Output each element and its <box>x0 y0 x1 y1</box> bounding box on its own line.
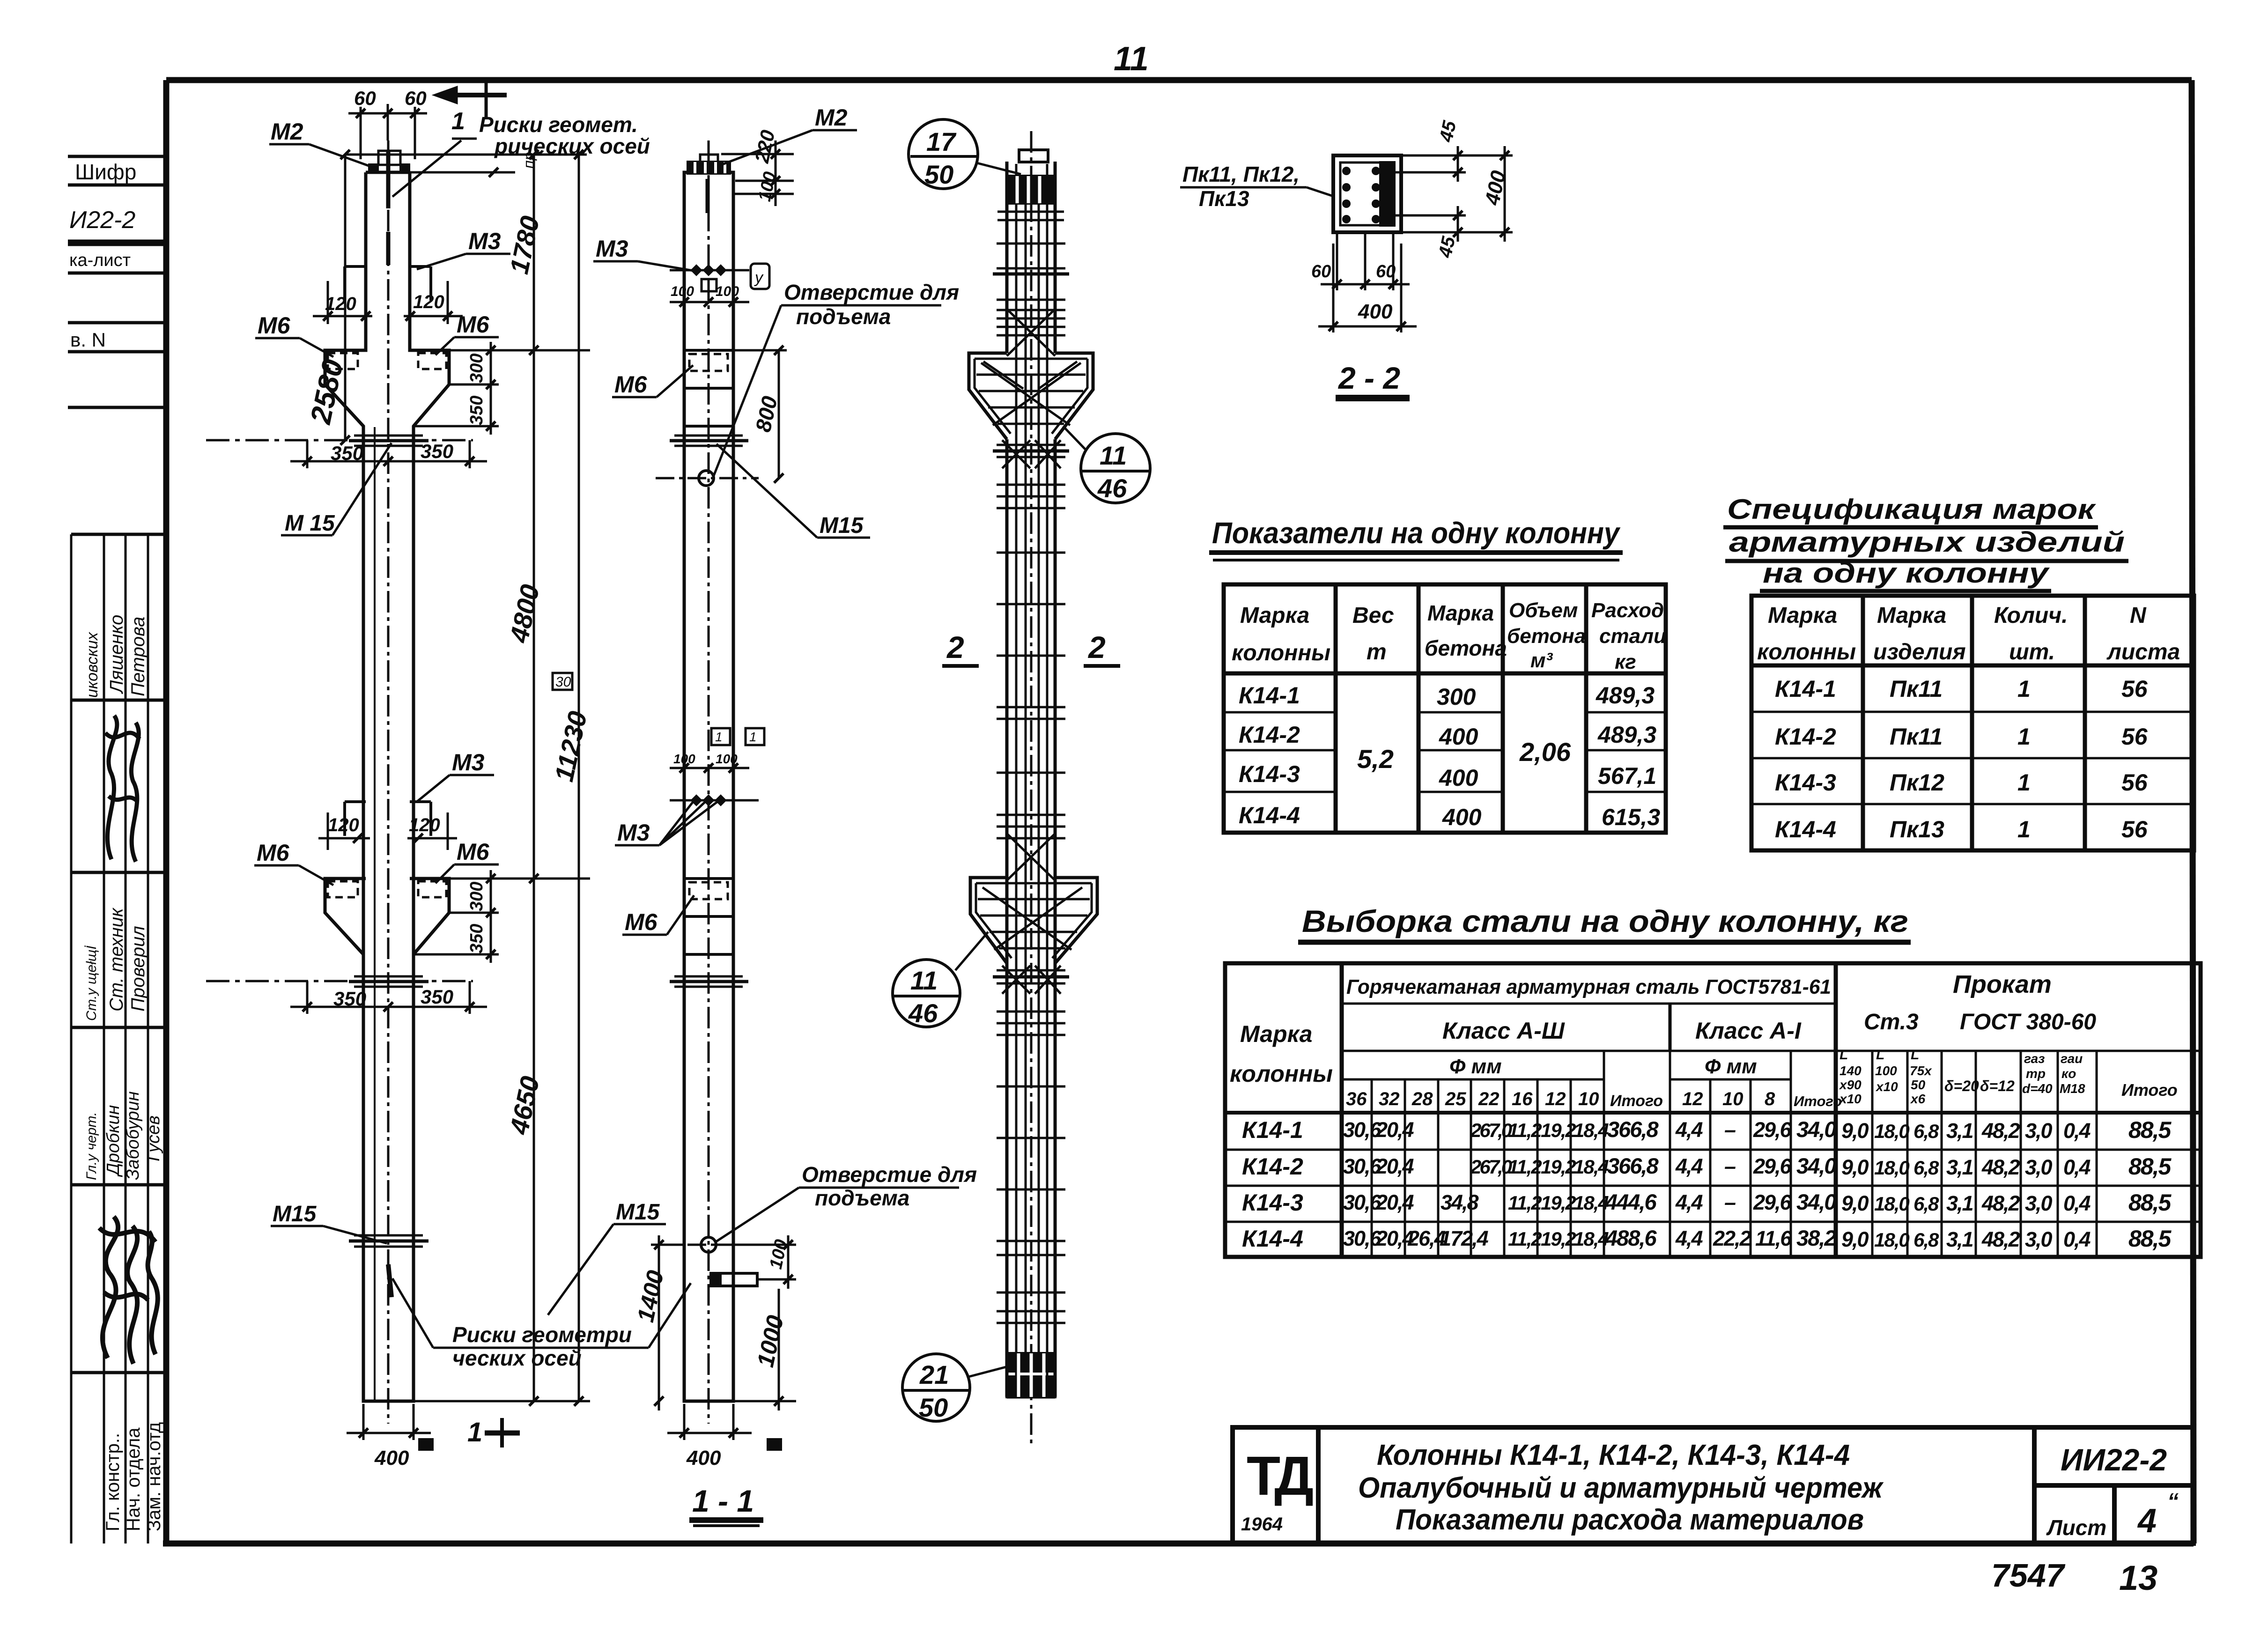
svg-text:0,4: 0,4 <box>2063 1227 2091 1251</box>
svg-text:на одну колонну: на одну колонну <box>1763 557 2050 589</box>
LEFT TITLE STRIP <box>68 156 166 1543</box>
svg-text:1964: 1964 <box>1241 1514 1283 1535</box>
svg-text:М6: М6 <box>258 312 291 339</box>
centerline col3 <box>1030 131 1033 1447</box>
svg-text:шт.: шт. <box>2009 640 2055 665</box>
centerline axis col2 <box>708 140 710 1424</box>
svg-text:Класс А-I: Класс А-I <box>1695 1018 1802 1044</box>
svg-text:Марка: Марка <box>1877 603 1946 628</box>
svg-text:L: L <box>1876 1047 1884 1063</box>
dim 100 hole to plate <box>717 1235 796 1289</box>
joint1 marks col2 <box>670 436 748 446</box>
svg-text:8: 8 <box>1765 1089 1775 1109</box>
plate band right side <box>1381 162 1394 225</box>
rotated titles bottom <box>103 1422 164 1531</box>
svg-text:Колич.: Колич. <box>1994 603 2068 628</box>
tier2 dim 100 100 <box>670 752 759 800</box>
svg-text:350: 350 <box>421 440 453 462</box>
svg-text:Итого: Итого <box>1610 1092 1663 1110</box>
embedded plate M3 marks col1 <box>345 266 431 301</box>
svg-text:28: 28 <box>1411 1089 1433 1109</box>
svg-text:К14-2: К14-2 <box>1239 722 1300 748</box>
bottom stamp numbers <box>1991 1557 2157 1597</box>
svg-text:К14-3: К14-3 <box>1775 769 1836 796</box>
svg-text:488,6: 488,6 <box>1605 1226 1657 1250</box>
svg-text:Итого: Итого <box>2121 1080 2178 1100</box>
svg-text:ГОСТ 380-60: ГОСТ 380-60 <box>1960 1010 2096 1034</box>
prokat sub headers <box>1839 1047 2178 1106</box>
svg-text:листа: листа <box>2106 640 2180 665</box>
svg-text:М6: М6 <box>257 840 290 866</box>
svg-text:4,4: 4,4 <box>1675 1190 1703 1214</box>
signatures row 1 (cursive scribbles) <box>105 716 140 862</box>
svg-text:–: – <box>1724 1154 1736 1178</box>
svg-text:30: 30 <box>555 674 571 690</box>
svg-text:10: 10 <box>1722 1089 1743 1109</box>
table2 title <box>1723 494 2128 591</box>
svg-text:Отверстие для: Отверстие для <box>802 1162 977 1187</box>
svg-text:18,0: 18,0 <box>1874 1193 1909 1215</box>
svg-text:17: 17 <box>926 127 957 156</box>
bottom anchor bands col3 <box>1007 1353 1055 1397</box>
svg-text:5,2: 5,2 <box>1357 744 1394 774</box>
svg-text:18,4: 18,4 <box>1574 1156 1609 1178</box>
svg-text:Расход: Расход <box>1591 599 1664 622</box>
svg-text:Показатели расхода материало: Показатели расхода материалов <box>1396 1504 1864 1536</box>
svg-text:Пк11, Пк12,: Пк11, Пк12, <box>1182 162 1300 186</box>
svg-text:Колонны К14-1, К14-2, К14-3,: Колонны К14-1, К14-2, К14-3, К14-4 <box>1377 1439 1850 1471</box>
svg-text:88,5: 88,5 <box>2128 1117 2172 1143</box>
corbel1 col3 outline <box>969 353 1093 439</box>
svg-text:Пк12: Пк12 <box>1890 769 1944 796</box>
svg-text:3,0: 3,0 <box>2025 1191 2053 1215</box>
dim 220 col2 top <box>721 128 794 206</box>
svg-text:x10: x10 <box>1839 1092 1862 1106</box>
corbel level lines col2 tier1 <box>684 350 733 426</box>
svg-text:140: 140 <box>1840 1063 1862 1078</box>
signature block grid <box>71 534 166 1543</box>
dim line 11230 <box>549 155 592 1406</box>
svg-text:М2: М2 <box>271 118 303 145</box>
section labels 2 2 <box>942 630 1120 666</box>
svg-text:6,8: 6,8 <box>1913 1229 1939 1251</box>
svg-text:444,6: 444,6 <box>1605 1189 1657 1214</box>
svg-text:Гл.у черт.: Гл.у черт. <box>84 1112 99 1180</box>
stirrup ticks mid <box>997 553 1065 838</box>
TITLE BLOCK bottom right <box>1233 1427 2194 1543</box>
weld box mark col2 <box>751 264 769 289</box>
svg-text:М 15: М 15 <box>285 511 335 536</box>
svg-text:δ=12: δ=12 <box>1980 1078 2015 1094</box>
svg-text:10: 10 <box>1578 1089 1599 1109</box>
svg-text:2: 2 <box>946 630 964 665</box>
circle mark 11/46 upper <box>1063 426 1150 503</box>
svg-text:ТД: ТД <box>1247 1445 1313 1507</box>
label M3 tier2 col1 <box>417 749 494 802</box>
rotated names row 3 <box>84 1091 163 1180</box>
svg-text:567,1: 567,1 <box>1598 763 1656 789</box>
svg-text:6,8: 6,8 <box>1913 1120 1939 1142</box>
svg-text:Показатели на одну колонну: Показатели на одну колонну <box>1212 516 1621 550</box>
svg-text:1: 1 <box>2017 769 2031 796</box>
svg-text:Марка: Марка <box>1240 603 1309 628</box>
svg-text:К14-3: К14-3 <box>1242 1189 1303 1216</box>
svg-text:48,2: 48,2 <box>1981 1191 2020 1215</box>
corbel2 col1 <box>325 426 449 954</box>
big table title <box>1298 904 1911 942</box>
TABLE 2: Specifikaciya marok <box>1723 494 2194 850</box>
rebar dots in section <box>1342 167 1380 223</box>
svg-text:Итого: Итого <box>1794 1093 1842 1109</box>
svg-text:4,4: 4,4 <box>1675 1154 1703 1178</box>
svg-text:в. N: в. N <box>70 329 106 351</box>
column K14 outline (view 1) <box>325 172 449 1401</box>
field box Shifr <box>68 156 166 185</box>
svg-text:366,8: 366,8 <box>1607 1153 1659 1178</box>
svg-text:К14-2: К14-2 <box>1242 1153 1303 1180</box>
svg-text:34,0: 34,0 <box>1796 1189 1836 1214</box>
svg-text:16: 16 <box>1512 1089 1533 1109</box>
svg-text:колонны: колонны <box>1230 1061 1333 1087</box>
svg-text:бетона: бетона <box>1425 636 1507 660</box>
svg-text:гаи: гаи <box>2061 1051 2083 1066</box>
dim 60 60 top <box>348 87 427 159</box>
COLUMN 3 reinforcement elevation <box>893 119 1150 1447</box>
svg-text:46: 46 <box>908 998 938 1028</box>
column dividers A-III <box>1372 1051 1791 1257</box>
svg-text:Лист: Лист <box>2046 1515 2106 1540</box>
corbel2 hatch <box>978 834 1090 950</box>
svg-text:120: 120 <box>413 292 444 312</box>
svg-text:11: 11 <box>1100 441 1127 470</box>
circle mark 21/50 <box>902 1354 1008 1422</box>
svg-text:–: – <box>1724 1118 1736 1142</box>
svg-text:13: 13 <box>2119 1558 2157 1597</box>
svg-text:18,4: 18,4 <box>1574 1228 1609 1250</box>
svg-text:К14-2: К14-2 <box>1775 724 1836 750</box>
svg-text:М15: М15 <box>820 513 864 538</box>
centerline axis col1 <box>387 140 390 1424</box>
svg-text:Шифр: Шифр <box>75 160 136 184</box>
M3 diamond marks col2 <box>690 264 726 276</box>
svg-text:иковских: иковских <box>83 632 101 698</box>
svg-text:20,4: 20,4 <box>1375 1154 1414 1178</box>
svg-text:100: 100 <box>1875 1063 1897 1078</box>
stirrup ticks lower <box>997 1086 1065 1323</box>
svg-text:М6: М6 <box>625 909 658 935</box>
svg-text:Гусев: Гусев <box>144 1115 163 1161</box>
corbel level lines col2 tier2 <box>684 879 733 954</box>
svg-text:1: 1 <box>715 730 723 744</box>
embedded plate col2 bottom <box>711 1273 757 1286</box>
svg-text:тр: тр <box>2026 1066 2046 1081</box>
stirrup ticks upper <box>993 244 1069 335</box>
svg-text:350: 350 <box>421 986 453 1008</box>
svg-text:1: 1 <box>749 730 757 744</box>
svg-text:350: 350 <box>467 396 487 425</box>
title block frame <box>1233 1427 2194 1543</box>
label M6 col2 <box>612 365 693 398</box>
svg-text:489,3: 489,3 <box>1597 722 1656 748</box>
svg-text:120: 120 <box>328 815 359 835</box>
dim 350 350 joint1 <box>290 440 487 468</box>
svg-text:К14-1: К14-1 <box>1775 676 1836 702</box>
field box marka-list <box>68 244 166 273</box>
base dim 400 col2 <box>667 1404 782 1470</box>
corbel1 hatch <box>976 309 1086 425</box>
label M15 joint1 <box>281 443 392 536</box>
M3 marks tier2 col1 <box>345 802 431 836</box>
svg-text:3,1: 3,1 <box>1946 1119 1973 1143</box>
field box II22-2 <box>68 207 166 241</box>
dashed plate M6 col2 <box>689 354 728 371</box>
circle mark 17/50 <box>909 119 1021 189</box>
svg-text:0,4: 0,4 <box>2063 1119 2091 1143</box>
svg-text:4,4: 4,4 <box>1675 1226 1703 1250</box>
svg-text:267,0: 267,0 <box>1470 1156 1512 1178</box>
COLUMN 1 formwork elevation <box>206 80 650 1470</box>
svg-text:615,3: 615,3 <box>1602 804 1660 830</box>
svg-text:К14-4: К14-4 <box>1242 1226 1303 1252</box>
BIG TABLE: Vyborka stali <box>1225 904 2201 1257</box>
table1 title <box>1209 516 1623 560</box>
section label 2-2 <box>1336 361 1410 398</box>
labels M6 col1 corbel1 <box>255 311 499 357</box>
dim 45 bottom right <box>1394 206 1513 260</box>
anchor bolts M2 at top <box>369 150 409 265</box>
svg-text:Риски геомет.: Риски геомет. <box>479 112 638 137</box>
svg-text:К14-1: К14-1 <box>1239 682 1300 709</box>
section label 1-1 <box>689 1484 763 1526</box>
svg-text:22,2: 22,2 <box>1713 1226 1751 1250</box>
svg-text:20,4: 20,4 <box>1375 1190 1414 1214</box>
svg-text:11,2: 11,2 <box>1508 1156 1542 1178</box>
table2 header text <box>1757 603 2180 665</box>
svg-text:d=40: d=40 <box>2022 1081 2053 1096</box>
svg-text:Объем: Объем <box>1509 599 1578 622</box>
svg-text:м³: м³ <box>1530 649 1553 672</box>
table2 grid <box>1751 596 2194 850</box>
svg-text:К14-4: К14-4 <box>1239 802 1300 828</box>
svg-text:Зам. нач.отд: Зам. нач.отд <box>144 1422 164 1531</box>
joint2 marks col2 <box>670 976 748 987</box>
svg-text:18,4: 18,4 <box>1574 1192 1609 1214</box>
svg-text:Ляшенко: Ляшенко <box>106 615 127 694</box>
svg-text:М15: М15 <box>273 1202 317 1226</box>
table2 body text <box>1775 676 2148 842</box>
svg-text:48,2: 48,2 <box>1981 1119 2020 1143</box>
svg-text:4: 4 <box>2137 1502 2157 1540</box>
svg-text:М3: М3 <box>452 749 485 775</box>
svg-text:2,06: 2,06 <box>1519 737 1571 767</box>
svg-text:М2: М2 <box>815 104 848 131</box>
svg-text:М6: М6 <box>457 311 490 338</box>
svg-text:19,2: 19,2 <box>1541 1156 1576 1178</box>
svg-text:Ст. техник: Ст. техник <box>106 907 127 1012</box>
svg-text:Марка: Марка <box>1768 603 1837 628</box>
svg-text:0,4: 0,4 <box>2063 1155 2091 1179</box>
svg-text:400: 400 <box>1439 724 1478 750</box>
dim 1000 col2 bottom <box>733 1284 796 1410</box>
svg-text:88,5: 88,5 <box>2128 1153 2172 1180</box>
svg-text:34,0: 34,0 <box>1796 1153 1836 1178</box>
svg-text:Марка: Марка <box>1427 601 1494 625</box>
svg-text:56: 56 <box>2121 724 2148 750</box>
svg-text:–: – <box>1724 1190 1736 1214</box>
svg-text:9,0: 9,0 <box>1841 1119 1869 1143</box>
svg-text:Ф мм: Ф мм <box>1705 1055 1757 1078</box>
lifting hole col2 <box>656 471 759 486</box>
dashed plates in corbel1 top corners <box>328 353 446 369</box>
label hole for lifting bottom <box>716 1162 977 1242</box>
svg-text:22: 22 <box>1478 1089 1500 1109</box>
label M2 col1 <box>269 118 370 166</box>
svg-text:120: 120 <box>325 294 356 314</box>
top anchor bolt col3 <box>997 150 1064 220</box>
svg-text:56: 56 <box>2121 816 2148 842</box>
signatures row 3 <box>99 1217 158 1364</box>
page number 11 <box>1114 40 1149 78</box>
svg-text:x6: x6 <box>1910 1092 1926 1106</box>
svg-text:7547: 7547 <box>1991 1557 2066 1594</box>
joint2 region ticks col3 <box>993 966 1069 1035</box>
svg-text:ка-лист: ка-лист <box>69 251 131 270</box>
svg-text:75x: 75x <box>1910 1063 1932 1078</box>
label riski geometricheskih osej top <box>392 112 650 197</box>
svg-text:подъема: подъема <box>815 1186 909 1210</box>
svg-text:И22-2: И22-2 <box>69 207 135 234</box>
svg-text:400: 400 <box>686 1447 721 1470</box>
svg-text:56: 56 <box>2121 676 2148 702</box>
svg-text:М3: М3 <box>596 236 628 262</box>
big table header text <box>1230 970 2096 1110</box>
tier2 M3 marks col2 <box>690 794 726 806</box>
svg-text:56: 56 <box>2121 769 2148 796</box>
svg-text:172,4: 172,4 <box>1440 1226 1489 1250</box>
header internal lines <box>1342 1004 2201 1079</box>
svg-text:4,4: 4,4 <box>1675 1118 1703 1142</box>
label PK11 PK12 PK13 <box>1180 162 1335 211</box>
table1 grid <box>1224 584 1666 833</box>
svg-text:М6: М6 <box>457 839 490 865</box>
svg-text:L: L <box>1840 1047 1848 1063</box>
svg-text:Гл. констр..: Гл. констр.. <box>103 1433 123 1531</box>
svg-text:бетона: бетона <box>1507 625 1586 648</box>
corbel2 col3 outline <box>970 878 1097 963</box>
svg-text:К14-4: К14-4 <box>1775 816 1836 842</box>
svg-text:“: “ <box>2167 1489 2179 1514</box>
svg-text:1 - 1: 1 - 1 <box>692 1484 754 1518</box>
svg-text:9,0: 9,0 <box>1841 1155 1869 1179</box>
svg-text:100: 100 <box>671 284 694 299</box>
label M6 col2 tier2 <box>622 895 694 935</box>
svg-text:x90: x90 <box>1839 1078 1862 1092</box>
dim 400 below <box>1318 244 1417 332</box>
dashed plate M6 col2 tier2 <box>689 882 728 899</box>
svg-text:120: 120 <box>409 815 440 835</box>
svg-text:Спецификация марок: Спецификация марок <box>1727 494 2096 525</box>
svg-text:100: 100 <box>716 284 739 299</box>
corbel2 dims 300 350 <box>414 870 499 963</box>
circle mark 11/46 lower <box>893 932 988 1028</box>
svg-text:δ=20: δ=20 <box>1944 1078 1979 1094</box>
svg-text:К14-1: К14-1 <box>1242 1117 1303 1143</box>
tier2 weld boxes col2 <box>711 728 764 745</box>
svg-text:32: 32 <box>1379 1089 1400 1109</box>
svg-text:11,2: 11,2 <box>1508 1119 1542 1141</box>
svg-text:3,1: 3,1 <box>1946 1227 1973 1251</box>
svg-text:N: N <box>2130 603 2147 628</box>
svg-text:Пк11: Пк11 <box>1890 724 1943 750</box>
svg-text:1: 1 <box>2017 816 2031 842</box>
svg-text:400: 400 <box>374 1447 409 1470</box>
svg-text:60: 60 <box>1311 262 1331 281</box>
small plate box on centerline <box>702 279 717 291</box>
joint2 marks col1 <box>206 976 473 987</box>
section mark 1 bottom <box>467 1417 520 1447</box>
dim 1400 col2 bottom <box>632 1235 684 1410</box>
svg-text:29,6: 29,6 <box>1753 1118 1792 1142</box>
svg-text:x10: x10 <box>1875 1079 1898 1094</box>
svg-text:21: 21 <box>919 1360 949 1389</box>
svg-text:3,1: 3,1 <box>1946 1191 1973 1215</box>
svg-text:18,0: 18,0 <box>1874 1157 1909 1179</box>
svg-text:Горячекатаная арматурная сталь: Горячекатаная арматурная сталь ГОСТ5781-… <box>1346 975 1831 998</box>
label M15 col2 joint1 <box>717 444 870 538</box>
joint1 axis marks col1 <box>206 436 473 446</box>
dim 100 100 small col2 <box>670 281 749 309</box>
dashed plates corbel2 corners <box>328 881 446 897</box>
section square outline <box>1333 155 1401 232</box>
section cut flag 4 at top <box>436 80 507 135</box>
svg-text:300: 300 <box>1437 684 1476 710</box>
svg-text:стали: стали <box>1599 625 1666 648</box>
svg-text:18,4: 18,4 <box>1574 1119 1609 1141</box>
svg-text:m: m <box>1367 640 1387 665</box>
rebar cage outline <box>1007 162 1055 1397</box>
svg-text:20,4: 20,4 <box>1375 1118 1414 1142</box>
svg-text:газ: газ <box>2024 1051 2045 1066</box>
svg-text:19,2: 19,2 <box>1541 1228 1576 1250</box>
svg-text:ИИ22-2: ИИ22-2 <box>2061 1442 2167 1477</box>
svg-text:267,0: 267,0 <box>1470 1119 1512 1141</box>
SECTION 2-2 detail <box>1180 118 1513 398</box>
label riski geometricheskih osej bottom <box>392 1278 691 1370</box>
svg-text:Проверил: Проверил <box>128 926 148 1012</box>
TD logo <box>1241 1445 1313 1535</box>
dim line 4650 <box>414 879 590 1406</box>
corbel1 dims 300 350 right <box>414 342 499 435</box>
svg-text:Ст.3: Ст.3 <box>1864 1010 1919 1034</box>
svg-text:М6: М6 <box>614 371 648 398</box>
dim 2580 <box>304 150 587 445</box>
dim 350 350 joint2 <box>290 981 487 1014</box>
svg-text:34,8: 34,8 <box>1441 1190 1479 1214</box>
svg-text:Пк11: Пк11 <box>1890 676 1943 702</box>
svg-text:кг: кг <box>1615 650 1636 673</box>
svg-text:400: 400 <box>1358 300 1393 323</box>
label M15 bottom col1 <box>271 1202 387 1243</box>
svg-text:1: 1 <box>2017 724 2031 750</box>
svg-text:L: L <box>1911 1047 1919 1063</box>
svg-text:3,0: 3,0 <box>2025 1119 2053 1143</box>
base dim 400 col1 <box>347 1404 434 1470</box>
inner face line col1 <box>374 427 376 1401</box>
dim line 1780 <box>410 155 590 355</box>
svg-text:25: 25 <box>1445 1089 1466 1109</box>
svg-text:350: 350 <box>333 988 366 1010</box>
dim 800 col2 <box>733 346 787 483</box>
